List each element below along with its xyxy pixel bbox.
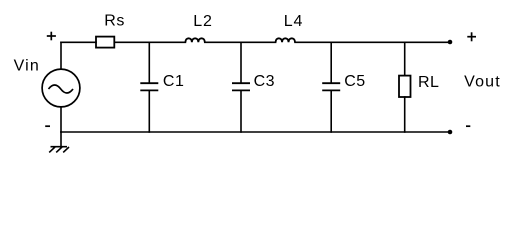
node output + (terminal dot) (448, 40, 453, 45)
svg-text:C5: C5 (344, 73, 365, 90)
minus marker right (466, 125, 470, 127)
svg-text:Rs: Rs (104, 13, 125, 30)
wire RL upper stub (404, 42, 406, 75)
svg-text:L2: L2 (193, 13, 212, 30)
wire left branch lower (source to bottom rail) (60, 107, 62, 132)
minus marker left (45, 125, 50, 127)
capacitor C3 (232, 83, 250, 90)
wire C3 upper stub (240, 42, 242, 83)
wire C1 lower stub (148, 90, 150, 132)
svg-text:C3: C3 (254, 73, 275, 90)
inductor L4 (276, 38, 295, 42)
voltage source Vin (circle with sine) (42, 69, 80, 107)
capacitor C1 (140, 83, 158, 90)
svg-text:L4: L4 (284, 13, 303, 30)
wire C5 lower stub (330, 90, 332, 132)
capacitor C5 (322, 83, 340, 90)
wire bottom rail (61, 131, 450, 133)
node output - (terminal dot) (448, 130, 453, 135)
wire top rail: L2 to L4 (205, 41, 276, 43)
svg-text:C1: C1 (163, 73, 184, 90)
wire left branch upper (node + to source) (60, 42, 62, 69)
wire C5 upper stub (330, 42, 332, 83)
svg-text:RL: RL (418, 74, 439, 91)
wire C3 lower stub (240, 90, 242, 132)
resistor RL (399, 76, 411, 97)
svg-text:Vout: Vout (464, 73, 501, 90)
wire RL lower stub (404, 97, 406, 132)
wire top rail: Rs to L2 (114, 41, 185, 43)
wire top rail: source corner to Rs (61, 41, 96, 43)
plus marker right (467, 32, 476, 41)
wire top rail: L4 to output node (295, 41, 450, 43)
resistor Rs (96, 37, 114, 48)
svg-text:Vin: Vin (14, 58, 40, 75)
wire C1 upper stub (148, 42, 150, 83)
ground (49, 147, 69, 153)
plus marker left (47, 32, 56, 41)
inductor L2 (185, 38, 204, 42)
wire ground stub (60, 132, 62, 147)
